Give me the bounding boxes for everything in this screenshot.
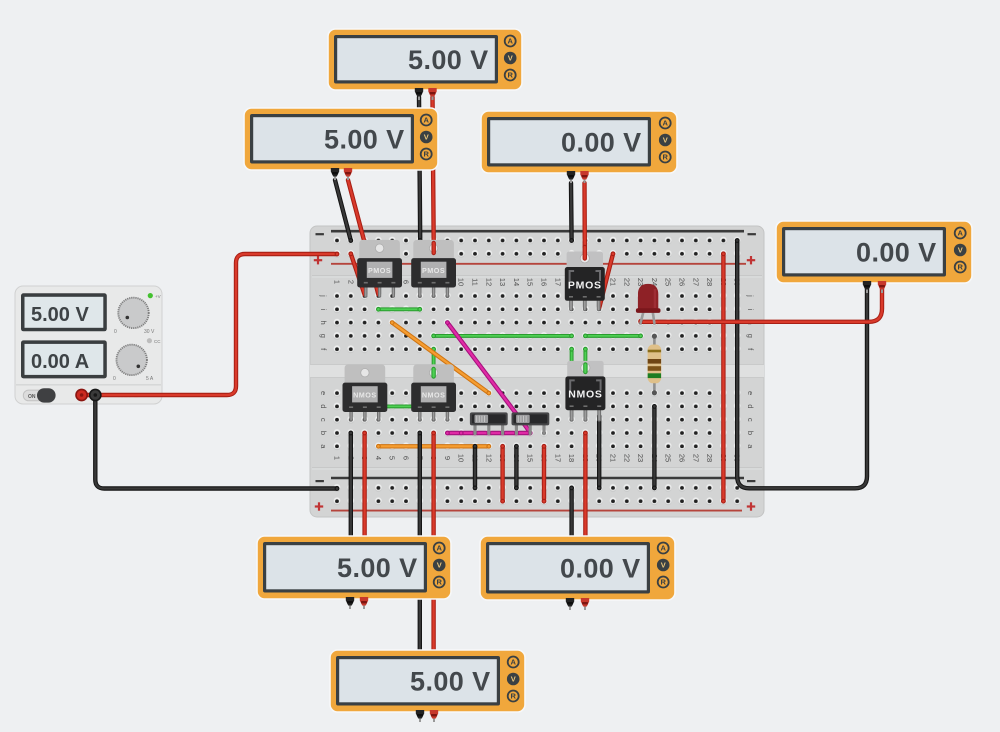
- svg-text:b: b: [319, 431, 328, 435]
- svg-text:V: V: [424, 133, 429, 142]
- svg-text:0: 0: [114, 329, 117, 335]
- svg-text:d: d: [319, 404, 328, 408]
- svg-text:j: j: [746, 294, 755, 297]
- svg-text:5.00 V: 5.00 V: [324, 124, 404, 154]
- svg-text:5.00 V: 5.00 V: [31, 304, 89, 326]
- svg-text:R: R: [507, 71, 513, 80]
- svg-text:A: A: [423, 116, 429, 125]
- svg-text:+V: +V: [155, 294, 161, 299]
- svg-text:NMOS: NMOS: [568, 389, 602, 401]
- svg-text:25: 25: [664, 454, 673, 462]
- svg-text:e: e: [319, 391, 328, 395]
- svg-text:21: 21: [609, 278, 618, 286]
- svg-text:6: 6: [402, 280, 411, 284]
- svg-text:25: 25: [664, 278, 673, 286]
- svg-text:16: 16: [540, 278, 549, 286]
- svg-text:e: e: [746, 391, 755, 395]
- svg-text:0.00 V: 0.00 V: [560, 553, 640, 583]
- svg-text:15: 15: [526, 454, 535, 462]
- svg-text:V: V: [508, 54, 513, 63]
- svg-text:5.00 V: 5.00 V: [337, 553, 417, 583]
- svg-text:c: c: [319, 418, 328, 422]
- svg-text:4: 4: [374, 456, 383, 460]
- svg-text:13: 13: [498, 278, 507, 286]
- svg-text:26: 26: [678, 454, 687, 462]
- svg-text:0.00 V: 0.00 V: [856, 237, 936, 267]
- svg-text:j: j: [319, 294, 328, 297]
- svg-text:21: 21: [609, 454, 618, 462]
- svg-text:0.00 V: 0.00 V: [561, 127, 641, 157]
- svg-text:0: 0: [113, 376, 116, 382]
- svg-text:30 V: 30 V: [144, 329, 155, 335]
- svg-text:15: 15: [526, 278, 535, 286]
- svg-text:22: 22: [622, 454, 631, 462]
- svg-text:2: 2: [346, 280, 355, 284]
- svg-text:14: 14: [512, 278, 521, 286]
- svg-text:27: 27: [691, 278, 700, 286]
- svg-text:R: R: [510, 692, 516, 701]
- svg-text:g: g: [319, 334, 328, 338]
- svg-text:V: V: [437, 561, 442, 570]
- svg-text:22: 22: [622, 278, 631, 286]
- svg-text:A: A: [957, 229, 963, 238]
- svg-text:V: V: [958, 246, 963, 255]
- svg-text:NMOS: NMOS: [422, 390, 446, 399]
- svg-text:R: R: [423, 150, 429, 159]
- svg-text:17: 17: [553, 454, 562, 462]
- svg-text:18: 18: [567, 454, 576, 462]
- svg-text:R: R: [436, 578, 442, 587]
- svg-text:c: c: [746, 418, 755, 422]
- svg-text:5: 5: [388, 456, 397, 460]
- svg-text:9: 9: [443, 456, 452, 460]
- svg-text:V: V: [661, 561, 666, 570]
- svg-text:NMOS: NMOS: [353, 390, 377, 399]
- svg-text:12: 12: [484, 454, 493, 462]
- svg-text:V: V: [663, 136, 668, 145]
- svg-text:26: 26: [678, 278, 687, 286]
- svg-text:5.00 V: 5.00 V: [410, 666, 490, 696]
- svg-text:27: 27: [691, 454, 700, 462]
- svg-text:6: 6: [402, 456, 411, 460]
- svg-text:5.00 V: 5.00 V: [408, 45, 488, 75]
- svg-text:23: 23: [636, 454, 645, 462]
- svg-text:PMOS: PMOS: [422, 266, 445, 275]
- svg-text:d: d: [746, 404, 755, 408]
- svg-text:R: R: [660, 578, 666, 587]
- svg-text:A: A: [507, 37, 513, 46]
- svg-text:R: R: [662, 153, 668, 162]
- svg-text:1: 1: [333, 456, 342, 460]
- svg-text:28: 28: [705, 454, 714, 462]
- svg-text:ON: ON: [28, 394, 36, 400]
- svg-text:10: 10: [457, 278, 466, 286]
- svg-text:12: 12: [484, 278, 493, 286]
- svg-text:CC: CC: [154, 339, 161, 344]
- svg-text:1: 1: [333, 280, 342, 284]
- svg-text:0.00 A: 0.00 A: [31, 351, 89, 373]
- svg-text:V: V: [511, 675, 516, 684]
- svg-text:28: 28: [705, 278, 714, 286]
- svg-text:h: h: [319, 321, 328, 325]
- svg-text:A: A: [662, 119, 668, 128]
- svg-text:PMOS: PMOS: [568, 279, 602, 291]
- svg-text:17: 17: [553, 278, 562, 286]
- svg-text:A: A: [436, 544, 442, 553]
- svg-text:10: 10: [457, 454, 466, 462]
- svg-text:PMOS: PMOS: [368, 266, 391, 275]
- svg-text:b: b: [746, 431, 755, 435]
- svg-text:A: A: [510, 658, 516, 667]
- svg-text:A: A: [660, 544, 666, 553]
- svg-text:11: 11: [471, 278, 480, 286]
- svg-text:g: g: [746, 334, 755, 338]
- svg-text:5 A: 5 A: [146, 376, 154, 382]
- svg-text:R: R: [957, 263, 963, 272]
